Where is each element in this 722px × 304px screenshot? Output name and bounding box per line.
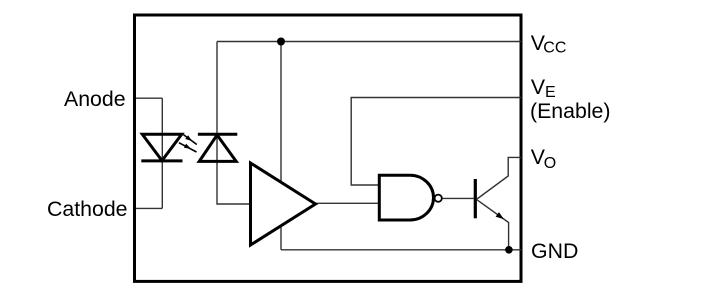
svg-text:O: O xyxy=(544,155,556,172)
svg-text:V: V xyxy=(531,75,546,99)
svg-text:GND: GND xyxy=(531,239,578,263)
svg-text:Cathode: Cathode xyxy=(47,197,128,221)
svg-text:Anode: Anode xyxy=(64,87,126,111)
svg-text:CC: CC xyxy=(543,39,566,56)
svg-text:(Enable): (Enable) xyxy=(530,99,611,123)
